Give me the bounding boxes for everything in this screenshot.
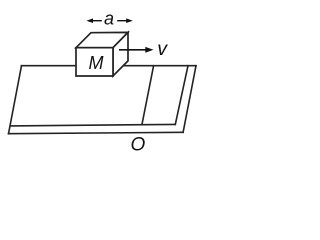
block M: faces with white fill hide plank edge behind xyxy=(76,32,128,76)
velocity arrow v xyxy=(119,47,154,53)
dimension arrow a (right arrow) xyxy=(117,18,133,23)
svg-text:M: M xyxy=(89,53,104,73)
cube right face xyxy=(113,32,128,76)
cube top face xyxy=(76,32,128,47)
plank left edge xyxy=(9,66,22,134)
plank inner right edge xyxy=(175,66,188,125)
plank outer right edge xyxy=(183,66,196,133)
svg-text:v: v xyxy=(157,38,168,60)
plank outer bottom edge xyxy=(9,132,184,133)
plank inner bottom edge xyxy=(10,124,175,126)
cube front face xyxy=(76,48,113,76)
plank top edge xyxy=(22,65,197,67)
svg-text:a: a xyxy=(104,8,114,28)
svg-text:O: O xyxy=(131,134,146,155)
dimension arrow a (left arrow) xyxy=(86,18,101,23)
plank mid slant line xyxy=(142,66,154,125)
physics diagram: block M on a plank with velocity v xyxy=(0,0,204,157)
